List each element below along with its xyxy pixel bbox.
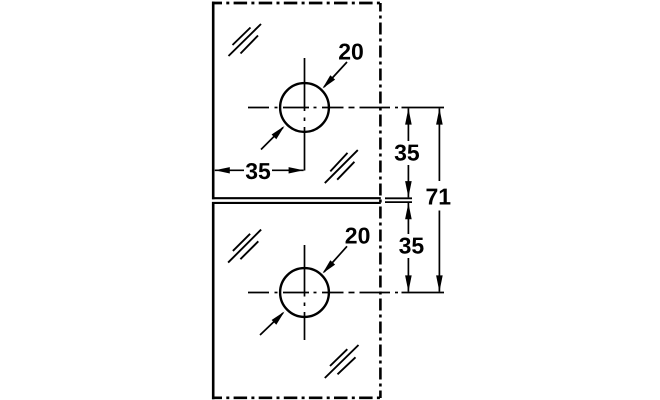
arrowhead: leader H2 upper xyxy=(323,260,336,273)
svg-text:20: 20 xyxy=(338,39,364,65)
hole H2 (bottom circle) xyxy=(280,268,329,317)
leader line hole H1 lower xyxy=(261,128,283,150)
label 35 (horizontal) xyxy=(244,160,272,180)
svg-text:35: 35 xyxy=(399,233,425,259)
dimension 35 bottom-right line xyxy=(407,203,409,292)
arrowheads: dimension 71 xyxy=(436,108,443,124)
leader line hole H2 lower xyxy=(260,313,283,335)
centerline H1 vertical (chain) xyxy=(304,58,306,171)
leader line hole H1 upper xyxy=(324,62,347,87)
dimension 71 line (broken at label) xyxy=(438,108,440,181)
glass symbol panel 1 upper-left xyxy=(229,24,262,56)
glass symbol panel 2 upper-left xyxy=(228,230,261,263)
glass symbol panel 1 lower-right xyxy=(325,150,358,183)
arrowhead: leader H2 lower xyxy=(272,312,285,325)
dimension 35 top-right line xyxy=(407,108,409,197)
glass panel 1 left edge (solid) xyxy=(212,2,215,200)
glass panel 1 top edge (chain line) xyxy=(212,2,382,5)
glass panel 2 top edge (solid) xyxy=(212,202,381,204)
arrowhead: leader H1 upper xyxy=(323,75,336,88)
leader line hole H2 upper xyxy=(324,246,347,272)
glass panels right edge (chain line, continuous across gap) xyxy=(379,3,382,398)
svg-text:71: 71 xyxy=(426,184,452,210)
svg-text:35: 35 xyxy=(245,158,271,184)
label 35 (top-right) xyxy=(394,141,420,165)
gap mark (=) between panels xyxy=(385,198,412,202)
glass panel 2 bottom edge (chain line) xyxy=(212,396,382,399)
hole H1 (top circle) xyxy=(280,83,329,132)
svg-text:35: 35 xyxy=(394,140,420,166)
centerline H2 horizontal (chain) xyxy=(248,292,444,294)
dimension 35 horizontal line xyxy=(215,169,304,171)
label 35 (bottom-right) xyxy=(398,234,425,258)
arrowheads: dimension 35 bottom-right xyxy=(405,203,412,219)
svg-text:20: 20 xyxy=(345,223,371,249)
arrowheads: dimension 35 top-right xyxy=(405,108,412,124)
glass symbol panel 2 lower-right xyxy=(325,345,359,378)
arrowheads: dimension 35 horizontal xyxy=(215,167,230,173)
glass panel 2 left edge (solid) xyxy=(212,202,215,399)
glass panel 1 bottom edge (solid) xyxy=(212,197,381,199)
arrowhead: leader H1 lower xyxy=(272,126,285,139)
centerline H2 vertical (chain) xyxy=(304,245,306,340)
centerline H1 horizontal (chain) xyxy=(248,107,444,109)
